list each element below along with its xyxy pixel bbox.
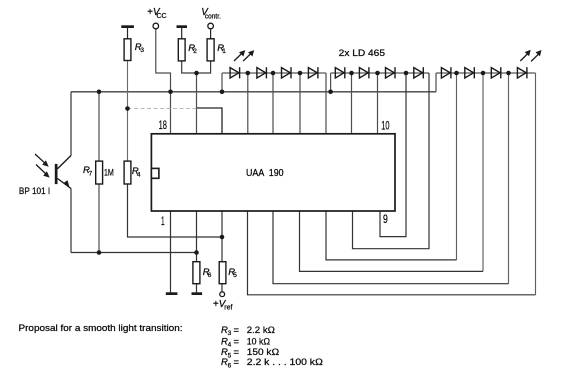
svg-text:CC: CC [157,13,167,20]
wire pin 1 to ground [170,211,172,293]
svg-text:1: 1 [222,48,226,55]
svg-text:ref: ref [224,305,232,312]
node LED7/8 junction [404,71,409,76]
svg-text:=: = [234,336,240,347]
svg-text:5: 5 [228,352,232,359]
svg-text:contr.: contr. [205,14,221,21]
LED D9 [441,67,451,78]
node R1/R2 junction [194,71,199,76]
wire pin 14 riser [272,73,274,134]
LED D12 [517,67,527,78]
node LED5/6 junction [349,71,354,76]
wire LED group3 anode feed (bus right end) [435,73,437,92]
wire LED group2 anode feed [330,73,332,92]
svg-text:4: 4 [137,171,141,178]
resistor R1 [207,39,214,61]
wire R3 bottom through bus to R4 [127,61,129,162]
node LED10/11 junction [481,71,486,76]
wire +Vcc drop to pin 18 [156,29,171,134]
svg-text:7: 7 [89,171,93,178]
phototransistor Q1 BP101 base bar [55,164,58,184]
node LED9/10 junction [454,71,459,76]
wire LED7/8 junction around to pin 9 [380,73,406,237]
wire collector riser from bus left end [70,92,72,156]
node pin2/R6 junction [194,250,199,255]
node emitter/R7 junction [97,250,102,255]
wire LED row group 2 [331,72,429,74]
svg-text:1M: 1M [104,167,114,178]
wire LED row group 3 [436,72,536,74]
svg-text:BP 101 I: BP 101 I [19,186,50,196]
wire Vcontr to R1 [210,29,212,39]
wire R3 stem top [127,27,129,39]
terminal Vcontr [208,23,214,29]
supply bar above R2 [177,25,188,28]
Q1 emitter arrowhead [64,180,70,188]
resistor R2 [178,39,185,61]
LED D5 [335,67,345,78]
svg-text:2.2 k . . . 100 kΩ: 2.2 k . . . 100 kΩ [247,356,323,367]
wire LED12 cathode to pin 4 [535,73,537,295]
wire R2 stem top [181,27,183,39]
wire LED group1 anode feed [221,73,223,92]
LED D8 [414,67,424,78]
LED D1 [230,67,240,78]
svg-text:18: 18 [159,118,167,132]
node pin3/R5 junction [220,235,225,240]
LED light arrows near D12 [520,53,528,61]
wire R7 bottom [98,184,100,253]
ground at pin 1 [166,292,178,295]
resistor R6 [193,262,200,284]
LED D2 [257,67,267,78]
node LED1/2 junction [246,71,251,76]
wire node to pin 16 [197,108,223,134]
svg-text:10: 10 [381,118,389,132]
svg-text:3: 3 [140,47,144,54]
node bus/LED group2 junction [328,90,333,95]
supply bar above R3 [121,25,134,28]
svg-text:3: 3 [228,330,232,337]
svg-text:9: 9 [383,214,388,226]
wire pin 3 [221,211,223,237]
terminal +Vcc [153,23,159,29]
node LED6/7 junction [375,71,380,76]
svg-text:6: 6 [228,362,232,369]
IC U1 UAA 190 outline [151,134,395,211]
wire R4 bottom to pin3 node [128,184,223,237]
LED D7 [386,67,396,78]
wire pin 15 riser [247,73,249,134]
Q1 light arrow 2 [36,165,47,175]
Q1 light arrow 1 [35,154,46,164]
wire LED9/10 junction to pin 7 [456,73,458,260]
resistor R5 [219,262,226,284]
resistor R7 [96,161,103,184]
wire LED row group 1 [222,72,326,74]
wire emitter drop [70,189,72,253]
wire R7 top riser [98,92,100,161]
wire R1 bottom to node [197,61,211,73]
ground at R6 [192,292,203,295]
svg-text:1: 1 [161,216,165,228]
wire VCC supply bus (top horizontal rail) [71,91,436,93]
wire R5 bottom to Vref terminal [221,284,223,292]
wire LED4 cathode to pin 12 [325,73,327,134]
terminal +Vref [220,292,225,297]
svg-text:Proposal for a smooth light tr: Proposal for a smooth light transition: [19,323,183,334]
svg-text:2x LD 465: 2x LD 465 [339,48,385,58]
LED D6 [359,67,369,78]
Q1 emitter diagonal [58,179,72,189]
wire LED10/11 junction to pin 6 [482,73,484,271]
wire LED8 cathode around to pin 8 [353,73,430,249]
wire R2 bottom to node [182,61,197,73]
resistor R4 [124,161,131,184]
wire emitter line [71,252,197,254]
wire pin 2 to emitter line [196,211,198,253]
svg-text:=: = [234,356,240,367]
node bus/pin18 junction [168,90,173,95]
wire R6 stem [196,253,198,262]
svg-text:10 kΩ: 10 kΩ [247,336,270,347]
resistor R3 [124,39,131,61]
Q1 collector diagonal [58,156,72,169]
svg-text:UAA 190: UAA 190 [246,167,284,179]
IC input marker square [151,168,159,178]
wire pin 13 riser [299,73,301,134]
node LED3/4 junction [298,71,303,76]
svg-text:=: = [234,324,240,335]
wire pin 11 riser [351,73,353,134]
LED D3 [282,67,292,78]
svg-text:4: 4 [228,342,232,349]
LED light arrows near D1 [234,53,242,61]
svg-text:2.2 kΩ: 2.2 kΩ [247,324,275,335]
wire pin3 node to R5 [221,237,223,262]
node R3/R4 junction [125,106,130,111]
node LED2/3 junction [271,71,276,76]
wire R3/R4 node to pin17 column (faint) [128,108,197,110]
node bus/R7 junction [97,90,102,95]
LED D10 [465,67,475,78]
svg-text:2: 2 [193,48,197,55]
wire pin 10 riser [377,73,379,134]
svg-text:5: 5 [233,272,237,279]
LED D4 [308,67,318,78]
svg-text:6: 6 [208,272,212,279]
wire node to pin 17 [196,73,198,134]
wire LED11/12 junction to pin 5 [508,73,510,284]
node bus/LED group1 junction [220,90,225,95]
LED D11 [491,67,501,78]
node LED11/12 junction [506,71,511,76]
wire R6 bottom to ground [196,284,198,293]
